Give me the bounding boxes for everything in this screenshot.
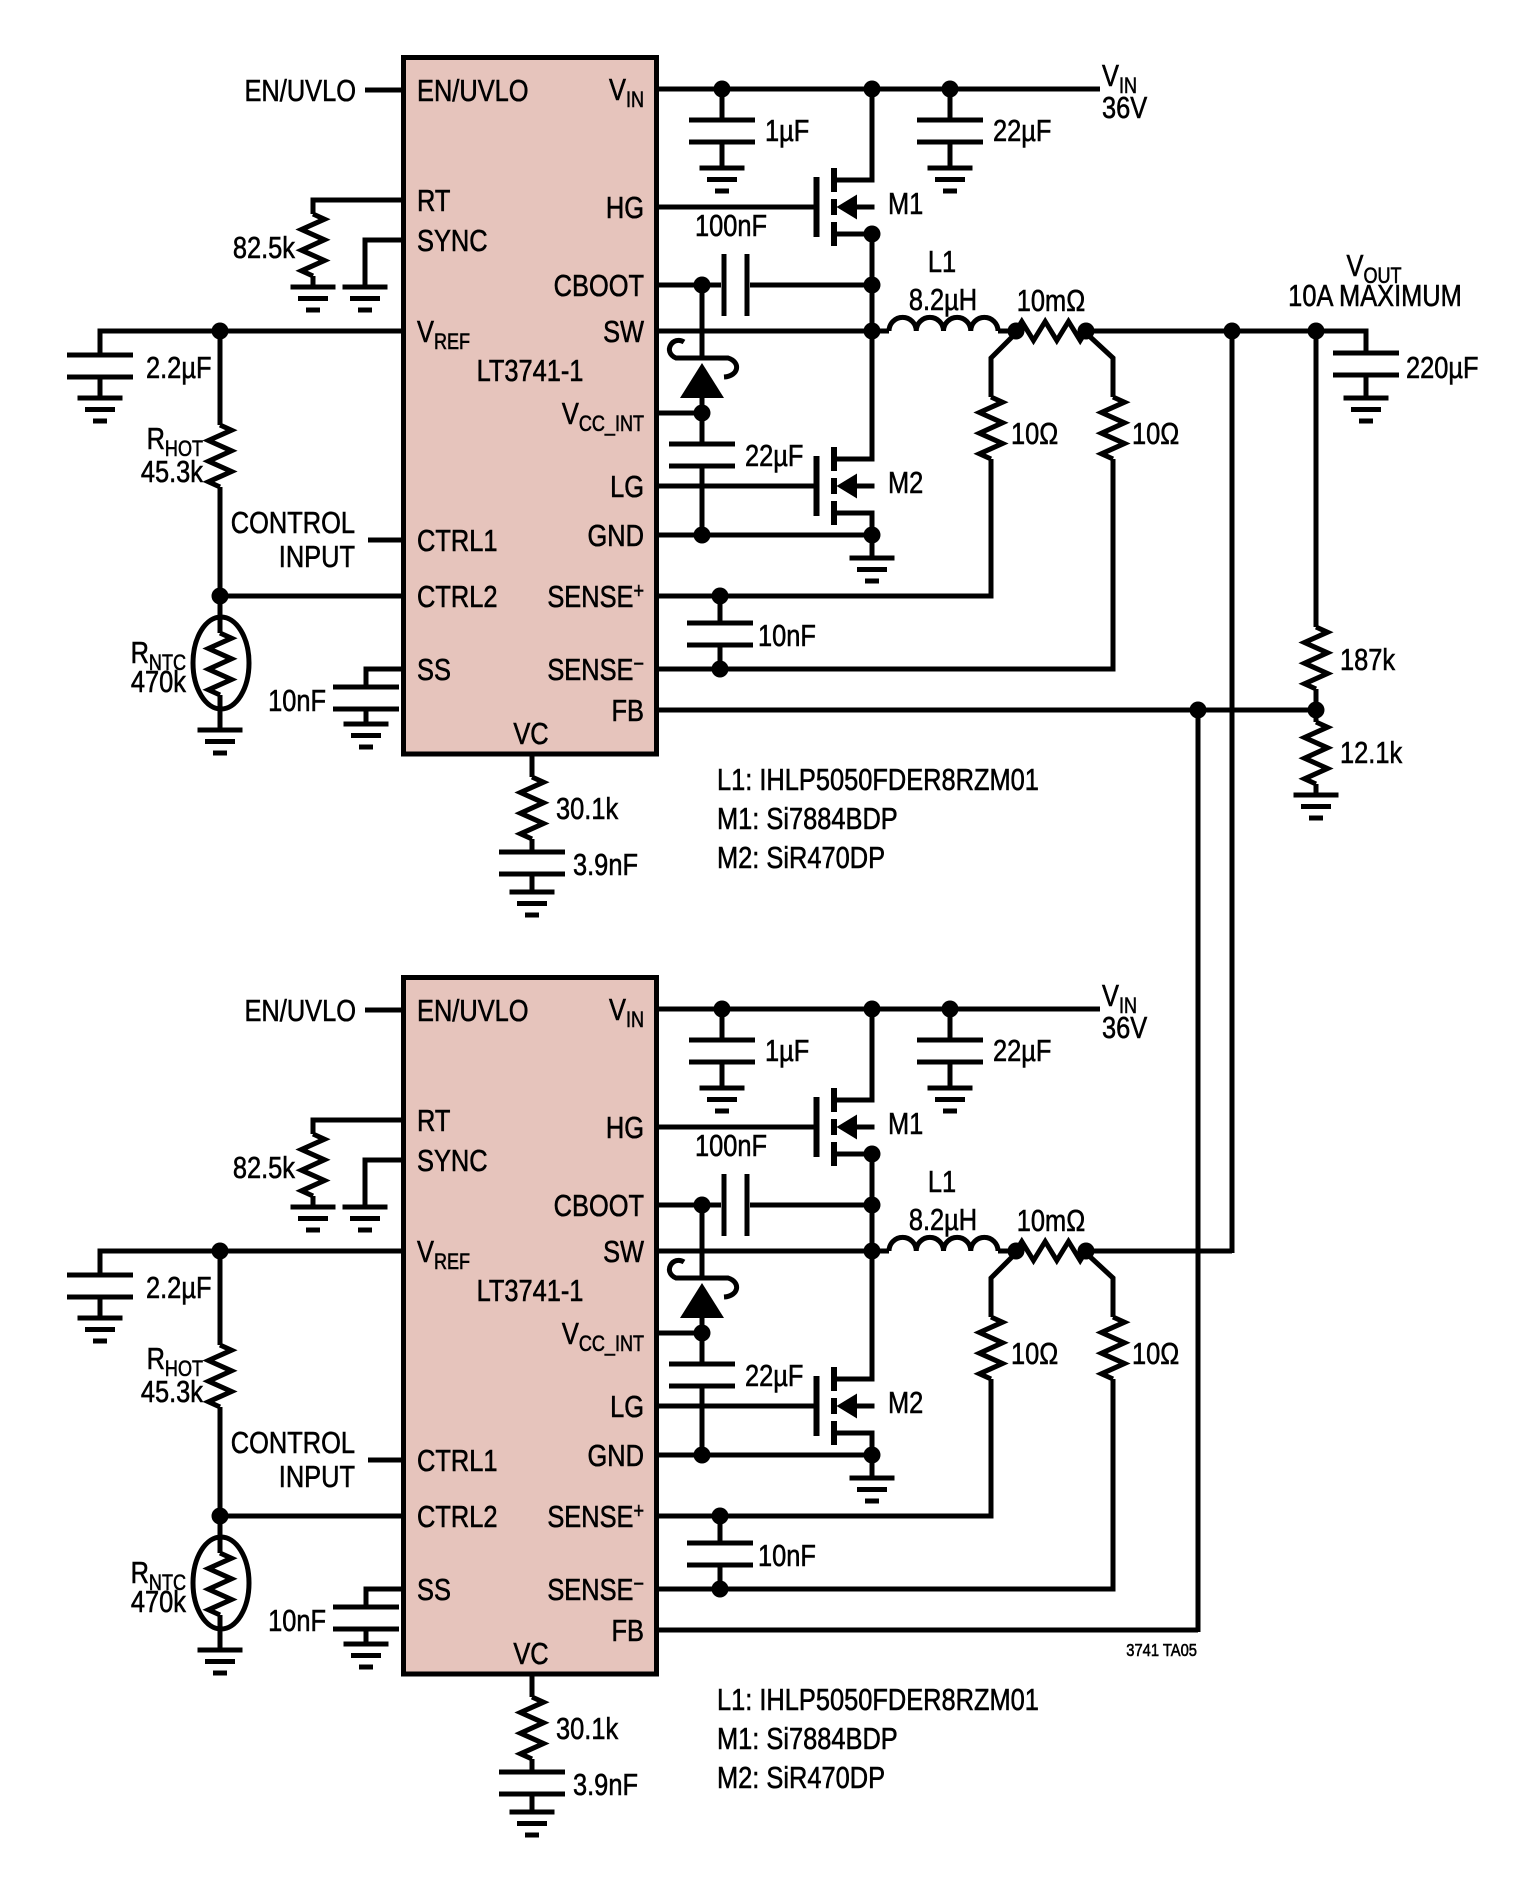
svg-text:187k: 187k (1340, 643, 1396, 678)
svg-text:10A MAXIMUM: 10A MAXIMUM (1288, 279, 1462, 314)
svg-text:220µF: 220µF (1406, 351, 1479, 386)
svg-text:3741 TA05: 3741 TA05 (1126, 1641, 1197, 1661)
svg-text:12.1k: 12.1k (1340, 736, 1403, 771)
